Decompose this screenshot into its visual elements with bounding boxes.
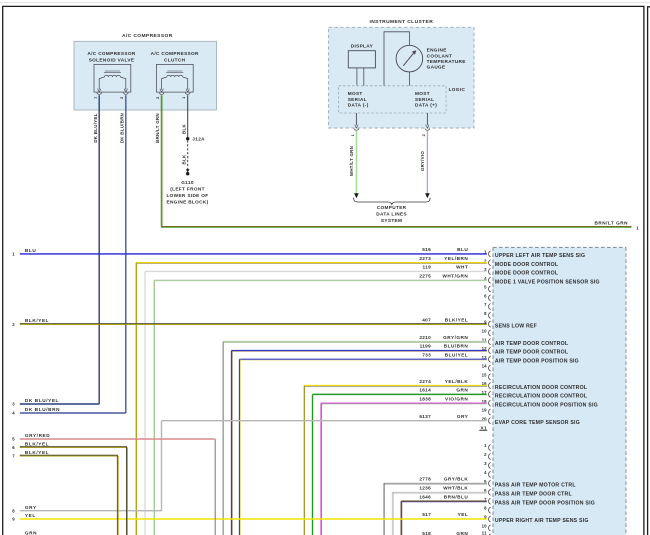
svg-text:BLK: BLK [181, 154, 186, 164]
svg-text:PASS AIR TEMP DOOR CTRL: PASS AIR TEMP DOOR CTRL [495, 491, 573, 497]
svg-text:2275: 2275 [419, 273, 431, 278]
svg-text:1838: 1838 [419, 396, 431, 401]
svg-text:BLU: BLU [25, 248, 36, 253]
svg-text:BRN/LT GRN: BRN/LT GRN [594, 221, 628, 226]
cluster pin 1 [355, 113, 357, 125]
svg-text:11: 11 [482, 531, 487, 535]
svg-text:AIR TEMP DOOR POSITION SIG: AIR TEMP DOOR POSITION SIG [495, 358, 579, 364]
svg-text:GRY/VIO: GRY/VIO [420, 151, 425, 172]
svg-text:INSTRUMENT CLUSTER: INSTRUMENT CLUSTER [369, 19, 433, 25]
wire 2778 GRY/BLK (X2 pin 5) [384, 482, 487, 484]
A/C compressor box [74, 41, 217, 110]
wire 407 BLK/YEL (left row 2 to X1 pin 9) [20, 323, 487, 325]
svg-text:COOLANT: COOLANT [427, 53, 453, 58]
svg-text:RECIRCULATION DOOR CONTROL: RECIRCULATION DOOR CONTROL [495, 394, 588, 400]
wire 2274 YEL/BLK (X1 pin 16) [304, 385, 487, 387]
splice J12A [186, 137, 189, 140]
svg-text:1646: 1646 [419, 494, 431, 499]
svg-text:MODE DOOR CONTROL: MODE DOOR CONTROL [495, 271, 559, 277]
svg-text:SENS LOW REF: SENS LOW REF [495, 323, 537, 329]
svg-text:BRN/LT GRN: BRN/LT GRN [155, 113, 160, 143]
svg-text:GRY/BLK: GRY/BLK [444, 477, 469, 482]
svg-text:2: 2 [120, 97, 124, 99]
wire 516 BLU (left row 1 to X1 pin 1) [20, 253, 487, 255]
svg-text:MODE 1 VALVE POSITION SENSOR S: MODE 1 VALVE POSITION SENSOR SIG [495, 279, 600, 285]
svg-text:DATA LINES: DATA LINES [376, 211, 407, 216]
logic box [339, 86, 447, 113]
svg-text:GRY: GRY [457, 414, 469, 419]
svg-text:WHT/BLK: WHT/BLK [443, 485, 468, 490]
svg-text:2: 2 [156, 97, 160, 99]
svg-text:YEL: YEL [25, 513, 36, 518]
svg-text:ENGINE: ENGINE [427, 48, 447, 53]
svg-text:PASS AIR TEMP DOOR POSITION SI: PASS AIR TEMP DOOR POSITION SIG [495, 500, 595, 506]
svg-text:2274: 2274 [419, 379, 431, 384]
svg-text:DK BLU/YEL: DK BLU/YEL [25, 398, 59, 403]
svg-text:BLU/YEL: BLU/YEL [445, 352, 469, 357]
svg-text:WHT/GRN: WHT/GRN [442, 273, 468, 278]
svg-text:BLK/YEL: BLK/YEL [25, 318, 49, 323]
adjacent page edge [648, 7, 650, 535]
svg-text:EVAP CORE TEMP SENSOR SIG: EVAP CORE TEMP SENSOR SIG [495, 420, 580, 426]
svg-text:GRY: GRY [25, 505, 37, 510]
svg-text:BLU: BLU [457, 247, 468, 252]
svg-text:119: 119 [423, 265, 432, 270]
wire BRN/LT GRN (clutch pin 2) [160, 95, 162, 226]
wire 119 WHT (X1 pin 3) [145, 270, 487, 272]
svg-text:A/C COMPRESSOR: A/C COMPRESSOR [87, 51, 135, 56]
wire GRY/VIO [426, 131, 428, 194]
svg-text:UPPER RIGHT AIR TEMP SENS SIG: UPPER RIGHT AIR TEMP SENS SIG [495, 518, 589, 524]
svg-text:517: 517 [422, 512, 431, 517]
svg-text:DATA (+): DATA (+) [415, 103, 437, 108]
svg-text:19: 19 [482, 408, 488, 413]
brace computer data lines [354, 198, 431, 205]
HVAC control module connector box [493, 247, 626, 535]
svg-text:1: 1 [351, 134, 355, 136]
gauge wires [384, 32, 409, 86]
svg-text:PASS AIR TEMP MOTOR CTRL: PASS AIR TEMP MOTOR CTRL [495, 483, 576, 489]
wire 1646 BRN/BLU (X2 pin 7) [401, 500, 487, 502]
svg-text:YEL/BRN: YEL/BRN [444, 256, 468, 261]
svg-text:MOST: MOST [415, 91, 430, 96]
display wires [356, 68, 358, 86]
wire 1236 WHT/BLK (X2 pin 6) [392, 491, 487, 493]
svg-text:GRN: GRN [25, 530, 37, 535]
svg-text:516: 516 [422, 247, 431, 252]
svg-text:A/C COMPRESSOR: A/C COMPRESSOR [151, 51, 199, 56]
wire 6137 GRY (left row 8 to X1 pin 20) [20, 510, 162, 512]
svg-text:RECIRCULATION DOOR POSITION SI: RECIRCULATION DOOR POSITION SIG [495, 402, 598, 408]
svg-text:15: 15 [482, 372, 488, 377]
svg-text:COMPUTER: COMPUTER [377, 205, 407, 210]
svg-text:DATA (-): DATA (-) [348, 103, 369, 108]
svg-text:6137: 6137 [419, 414, 431, 419]
svg-text:(LEFT FRONT: (LEFT FRONT [170, 187, 205, 192]
svg-text:1: 1 [94, 97, 98, 99]
svg-text:1: 1 [182, 97, 186, 99]
svg-text:WHT: WHT [456, 265, 468, 270]
svg-text:YEL: YEL [458, 512, 469, 517]
svg-text:UPPER LEFT AIR TEMP SENS SIG: UPPER LEFT AIR TEMP SENS SIG [495, 253, 585, 259]
svg-text:14: 14 [482, 364, 488, 369]
svg-text:G110: G110 [181, 180, 194, 185]
svg-text:LOWER SIDE OF: LOWER SIDE OF [166, 193, 208, 198]
svg-text:DK BLU/YEL: DK BLU/YEL [93, 113, 98, 142]
wire DK BLU/YEL (solenoid pin 1) [98, 95, 100, 404]
svg-text:10: 10 [482, 524, 488, 529]
svg-text:MODE DOOR CONTROL: MODE DOOR CONTROL [495, 262, 559, 268]
svg-text:LOGIC: LOGIC [449, 87, 466, 92]
svg-text:2273: 2273 [419, 256, 431, 261]
wire GRY/RED (left row 5) [20, 437, 215, 439]
svg-text:CLUTCH: CLUTCH [164, 57, 186, 62]
wire 2273 YEL/BRN (X1 pin 2) [136, 262, 487, 264]
svg-text:ENGINE BLOCK): ENGINE BLOCK) [166, 200, 208, 205]
svg-text:WHT/LT GRN: WHT/LT GRN [349, 146, 354, 176]
cluster pin 2 [426, 113, 428, 125]
svg-text:RECIRCULATION DOOR CONTROL: RECIRCULATION DOOR CONTROL [495, 385, 588, 391]
wire 1614 GRN (X1 pin 17) [313, 393, 487, 395]
wire 733 BLU/YEL (X1 pin 13) [240, 358, 487, 360]
svg-text:TEMPERATURE: TEMPERATURE [427, 59, 466, 64]
svg-text:DK BLU/BRN: DK BLU/BRN [120, 113, 125, 143]
wire BLK/YEL (left row 6) [20, 446, 127, 448]
wire BLK/YEL (left row 7) [20, 454, 118, 456]
svg-text:DISPLAY: DISPLAY [351, 44, 374, 49]
wire 1838 VIO/GRN (X1 pin 18) [321, 402, 487, 404]
top faint line [0, 2, 650, 4]
svg-text:733: 733 [422, 352, 431, 357]
svg-text:YEL/BLK: YEL/BLK [445, 379, 469, 384]
wire 2210 GRY/GRN (X1 pin 11) [223, 340, 487, 342]
svg-text:2778: 2778 [419, 477, 431, 482]
wire 517 YEL (left row 9 to X2 pin 9) [20, 518, 487, 520]
svg-text:SERIAL: SERIAL [415, 97, 434, 102]
svg-text:BLK: BLK [181, 124, 186, 134]
wire DK BLU/BRN (solenoid pin 2) [125, 95, 127, 413]
wire BLK dashed to ground [187, 140, 189, 169]
svg-text:518: 518 [422, 531, 431, 535]
svg-text:10: 10 [482, 329, 488, 334]
svg-text:GRY/RED: GRY/RED [25, 433, 50, 438]
svg-text:BLK/YEL: BLK/YEL [25, 441, 49, 446]
ground G110 [186, 172, 189, 175]
svg-text:BRN/BLU: BRN/BLU [444, 494, 469, 499]
wire WHT/LT GRN [355, 131, 357, 194]
engine coolant temperature gauge [396, 45, 423, 72]
svg-text:BLK/YEL: BLK/YEL [25, 450, 49, 455]
svg-text:GRY/GRN: GRY/GRN [443, 335, 468, 340]
instrument cluster box [329, 27, 474, 128]
svg-text:J12A: J12A [192, 137, 205, 142]
svg-text:DK BLU/BRN: DK BLU/BRN [25, 407, 60, 412]
svg-text:1614: 1614 [419, 388, 431, 393]
svg-text:1199: 1199 [420, 344, 431, 349]
svg-text:BLK/YEL: BLK/YEL [445, 317, 469, 322]
wire 2275 WHT/GRN (X1 pin 4) [154, 279, 487, 281]
svg-text:407: 407 [422, 317, 431, 322]
svg-text:2: 2 [422, 134, 426, 136]
svg-text:GAUGE: GAUGE [427, 65, 446, 70]
svg-text:AIR TEMP DOOR CONTROL: AIR TEMP DOOR CONTROL [495, 341, 569, 347]
svg-text:2210: 2210 [419, 335, 431, 340]
svg-text:VIO/GRN: VIO/GRN [445, 396, 468, 401]
svg-text:MOST: MOST [348, 91, 363, 96]
svg-text:X1: X1 [480, 426, 487, 432]
svg-text:GRN: GRN [456, 388, 468, 393]
svg-text:SYSTEM: SYSTEM [381, 218, 402, 223]
svg-text:GRN: GRN [456, 531, 468, 535]
wire 1199 BLU/BRN (X1 pin 12) [232, 349, 487, 351]
svg-text:AIR TEMP DOOR CONTROL: AIR TEMP DOOR CONTROL [495, 350, 569, 356]
svg-text:SERIAL: SERIAL [348, 97, 367, 102]
svg-text:A/C COMPRESSOR: A/C COMPRESSOR [122, 33, 173, 39]
svg-text:SOLENOID VALVE: SOLENOID VALVE [89, 57, 135, 62]
wire BLK (clutch pin 1) [187, 95, 189, 137]
svg-text:1236: 1236 [419, 485, 431, 490]
svg-text:BLU/BRN: BLU/BRN [444, 344, 469, 349]
